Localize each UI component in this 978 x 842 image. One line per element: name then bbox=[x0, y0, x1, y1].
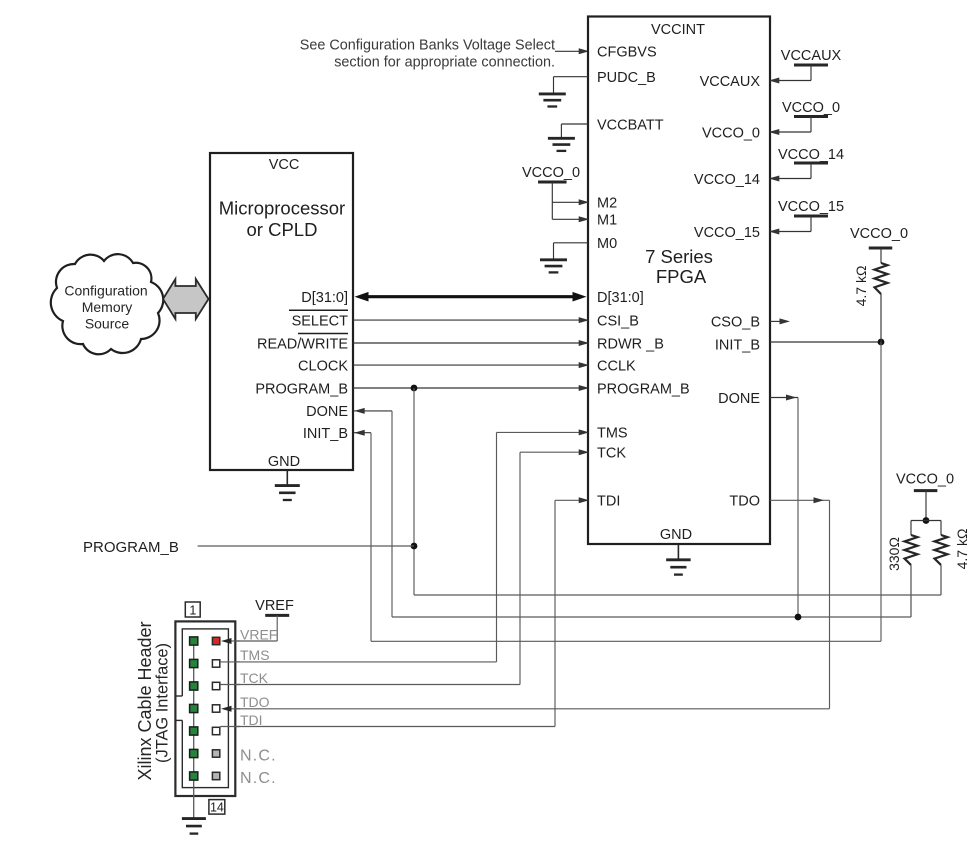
power VCCO_0 (U2 right) bbox=[769, 100, 840, 135]
label 7 Series FPGA bbox=[645, 246, 713, 287]
svg-text:VCCINT: VCCINT bbox=[651, 22, 705, 38]
pin label PROGRAM_B (U2) bbox=[597, 381, 690, 397]
FPGA U2 box bbox=[588, 17, 770, 545]
wire DONE (U2 side) bbox=[770, 395, 798, 618]
power VCCO_15 (U2 right) bbox=[769, 199, 844, 235]
svg-text:TCK: TCK bbox=[597, 446, 626, 462]
wire pull-up tee bbox=[911, 521, 941, 536]
svg-text:INIT_B: INIT_B bbox=[303, 426, 348, 442]
wire header pin column bbox=[193, 641, 195, 819]
note: configuration banks voltage select bbox=[300, 38, 555, 71]
svg-text:Memory: Memory bbox=[82, 299, 133, 315]
pin label TCK (header) bbox=[240, 670, 269, 686]
wire 330 Ohm bottom bbox=[910, 565, 912, 617]
svg-text:M2: M2 bbox=[597, 196, 617, 212]
pin label INIT_B (U1) bbox=[303, 426, 348, 442]
svg-text:Xilinx Cable Header: Xilinx Cable Header bbox=[135, 621, 155, 780]
svg-text:TMS: TMS bbox=[597, 426, 628, 442]
header pin square right VREF bbox=[212, 637, 219, 644]
pin label VCCO_0 (U2 right) bbox=[702, 125, 760, 141]
svg-text:INIT_B: INIT_B bbox=[715, 337, 760, 353]
wire INIT_B vertical bbox=[880, 342, 882, 641]
svg-text:TDO: TDO bbox=[240, 694, 270, 710]
junction PROGRAM_B at U1-U2 wire bbox=[411, 385, 418, 392]
svg-text:CSO_B: CSO_B bbox=[711, 315, 760, 331]
wire PROGRAM_B (U1 to U2) bbox=[353, 385, 589, 391]
label Microprocessor or CPLD bbox=[219, 198, 345, 240]
pin label TDI (U2) bbox=[597, 494, 620, 510]
svg-text:TDI: TDI bbox=[597, 494, 620, 510]
header pin square right N.C. bbox=[212, 772, 219, 779]
svg-text:(JTAG Interface): (JTAG Interface) bbox=[154, 643, 172, 763]
svg-text:Configuration: Configuration bbox=[64, 283, 147, 299]
header pin square left row 6 bbox=[190, 749, 198, 757]
wire 4.7k bottom bbox=[940, 565, 942, 595]
svg-text:GND: GND bbox=[660, 527, 692, 543]
svg-text:PROGRAM_B: PROGRAM_B bbox=[597, 381, 690, 397]
pin label CSI_B (U2) bbox=[597, 313, 639, 329]
svg-text:7 Series: 7 Series bbox=[645, 246, 713, 267]
svg-text:FPGA: FPGA bbox=[656, 266, 707, 287]
svg-text:SELECT: SELECT bbox=[292, 313, 349, 329]
pin label N.C. 2 (header) bbox=[240, 770, 277, 787]
value label 330 Ohm bbox=[886, 537, 902, 571]
pin label D[31:0] (U2) bbox=[597, 290, 644, 306]
label Xilinx Cable Header bbox=[135, 621, 172, 780]
svg-text:CFGBVS: CFGBVS bbox=[597, 45, 657, 61]
power VCCO_0 (mode pins) bbox=[522, 165, 580, 182]
pin label M0 (U2) bbox=[597, 236, 617, 252]
ground (U1 GND) bbox=[275, 470, 300, 500]
wire PROGRAM_B label bbox=[198, 545, 414, 547]
svg-text:VCCO_0: VCCO_0 bbox=[782, 100, 840, 116]
svg-text:M1: M1 bbox=[597, 213, 617, 229]
svg-text:1: 1 bbox=[189, 603, 196, 617]
header pin square left row 3 bbox=[190, 682, 198, 690]
wire SELECT to CSI_B bbox=[353, 317, 589, 323]
cloud: Configuration Memory Source bbox=[51, 254, 163, 354]
wire PROGRAM_B vertical bbox=[413, 388, 415, 595]
svg-text:CLOCK: CLOCK bbox=[298, 358, 348, 374]
header pin square right TDO bbox=[212, 705, 219, 712]
svg-text:TDI: TDI bbox=[240, 712, 263, 728]
pin label SELECT with overline (U1) bbox=[289, 310, 348, 329]
pin label TDI (header) bbox=[240, 712, 263, 728]
wire CSO_B stub bbox=[770, 318, 790, 324]
pin label VCC (U1) bbox=[269, 157, 300, 173]
svg-text:See Configuration Banks Voltag: See Configuration Banks Voltage Select bbox=[300, 38, 555, 54]
ground (header) bbox=[182, 819, 206, 834]
power VCCO_0 (DONE/PROGRAM pull-ups) bbox=[896, 472, 954, 521]
header pin square right N.C. bbox=[212, 750, 219, 757]
wire DONE bottom run bbox=[392, 566, 911, 617]
label pin 1 box bbox=[185, 602, 200, 617]
svg-text:or CPLD: or CPLD bbox=[247, 219, 318, 240]
pin label TMS (U2) bbox=[597, 426, 628, 442]
pin label READ/WRITE with overline (U1) bbox=[257, 334, 348, 353]
svg-text:VCCO_0: VCCO_0 bbox=[702, 125, 760, 141]
power VCCAUX (U2 right) bbox=[769, 48, 842, 84]
svg-text:VCCAUX: VCCAUX bbox=[700, 74, 761, 90]
svg-text:section for appropriate connec: section for appropriate connection. bbox=[334, 55, 555, 71]
svg-text:PUDC_B: PUDC_B bbox=[597, 70, 656, 86]
svg-text:TMS: TMS bbox=[240, 647, 270, 663]
svg-text:330Ω: 330Ω bbox=[886, 537, 902, 571]
wire TDO stub with arrow bbox=[221, 706, 240, 712]
wire M0 to ground bbox=[554, 243, 589, 260]
wire DONE (U1 side) bbox=[354, 408, 392, 617]
resistor 4.7 kOhm (PROGRAM_B pull-up) bbox=[935, 535, 948, 565]
svg-text:DONE: DONE bbox=[306, 404, 348, 420]
svg-text:VREF: VREF bbox=[240, 626, 277, 642]
bus D[31:0] (bidirectional) bbox=[355, 292, 587, 302]
pin label RDWR _B (U2) bbox=[597, 336, 664, 352]
pin label M1 (U2) bbox=[597, 213, 617, 229]
label PROGRAM_B (external) bbox=[83, 539, 179, 556]
pin label PROGRAM_B (U1) bbox=[255, 381, 348, 397]
pin label DONE (U2 right) bbox=[718, 391, 760, 407]
pin label PUDC_B (U2) bbox=[597, 70, 656, 86]
svg-text:CSI_B: CSI_B bbox=[597, 313, 639, 329]
header pin square right TDI bbox=[212, 727, 219, 734]
pin label TMS (header) bbox=[240, 647, 270, 663]
header pin square left row 7 bbox=[190, 772, 198, 780]
svg-text:D[31:0]: D[31:0] bbox=[301, 290, 348, 306]
pin label VCCINT (U2) bbox=[651, 22, 705, 38]
wire TMS stub bbox=[220, 661, 240, 663]
header pin square left row 2 bbox=[190, 659, 198, 667]
svg-text:4.7 kΩ: 4.7 kΩ bbox=[954, 529, 970, 570]
header pin square right TMS bbox=[212, 660, 219, 667]
wire TDI bbox=[220, 497, 589, 726]
svg-text:Source: Source bbox=[85, 315, 130, 331]
wire INIT_B (U1 side) bbox=[354, 430, 371, 642]
JTAG header outer box bbox=[175, 621, 235, 796]
pin label VCCAUX (U2 right) bbox=[700, 74, 761, 90]
header pin square left row 1 bbox=[190, 637, 198, 645]
wire CLOCK to CCLK bbox=[353, 362, 589, 368]
pin label CSO_B (U2 right) bbox=[711, 315, 760, 331]
wire PUDC_B to ground bbox=[554, 77, 589, 94]
svg-text:TDO: TDO bbox=[729, 494, 760, 510]
pin label GND (U2) bbox=[660, 527, 692, 543]
pin label M2 (U2) bbox=[597, 196, 617, 212]
junction DONE net bbox=[795, 614, 802, 621]
pin label VCCO_14 (U2 right) bbox=[694, 172, 760, 188]
bidirectional arrow (cloud to microprocessor) bbox=[163, 279, 209, 319]
svg-text:PROGRAM_B: PROGRAM_B bbox=[83, 539, 179, 556]
ground (VCCBATT) bbox=[548, 138, 575, 151]
svg-text:N.C.: N.C. bbox=[240, 748, 277, 765]
junction VCCO_0 pull-up tee bbox=[923, 517, 930, 524]
svg-text:14: 14 bbox=[210, 801, 224, 815]
svg-text:VCCO_14: VCCO_14 bbox=[778, 147, 844, 163]
pin label D[31:0] (U1) bbox=[301, 290, 348, 306]
wire TCK stub bbox=[220, 684, 240, 686]
ground (PUDC_B) bbox=[539, 94, 566, 107]
pin label CCLK (U2) bbox=[597, 358, 636, 374]
pin label N.C. 1 (header) bbox=[240, 748, 277, 765]
value label 4.7 kOhm (PROGRAM_B) bbox=[954, 529, 970, 570]
svg-text:M0: M0 bbox=[597, 236, 617, 252]
pin label INIT_B (U2 right) bbox=[715, 337, 760, 353]
svg-text:N.C.: N.C. bbox=[240, 770, 277, 787]
wire VCCO_0 to M2/M1 bbox=[552, 182, 587, 219]
svg-text:VCCO_14: VCCO_14 bbox=[694, 172, 760, 188]
svg-text:RDWR _B: RDWR _B bbox=[597, 336, 664, 352]
svg-text:PROGRAM_B: PROGRAM_B bbox=[255, 381, 348, 397]
svg-text:VCCO_15: VCCO_15 bbox=[778, 199, 844, 215]
wire INIT_B (U2 side) bbox=[770, 341, 881, 343]
pin label CFGBVS (U2) bbox=[597, 45, 657, 61]
svg-text:VREF: VREF bbox=[255, 598, 294, 614]
pin label CLOCK (U1) bbox=[298, 358, 348, 374]
power VREF (header) bbox=[255, 598, 294, 641]
pin label TCK (U2) bbox=[597, 446, 626, 462]
arrow into M2 bbox=[579, 199, 590, 205]
wire PROGRAM_B bottom run bbox=[414, 566, 941, 595]
pin label TDO (header) bbox=[240, 694, 270, 710]
power VCCO_14 (U2 right) bbox=[769, 147, 844, 182]
svg-text:VCCO_15: VCCO_15 bbox=[694, 225, 760, 241]
header pin square left row 4 bbox=[190, 704, 198, 712]
wire VREF stub with arrow bbox=[221, 638, 240, 644]
pin label DONE (U1) bbox=[306, 404, 348, 420]
svg-text:VCCO_0: VCCO_0 bbox=[850, 226, 908, 242]
wire VCCBATT to ground bbox=[561, 124, 588, 138]
junction PROGRAM_B label tap bbox=[411, 543, 418, 550]
arrow into M1 bbox=[579, 216, 590, 222]
ground (M0) bbox=[540, 260, 567, 273]
wire VREF into header bbox=[222, 638, 278, 644]
svg-text:GND: GND bbox=[268, 454, 300, 470]
JTAG header inner box bbox=[175, 629, 228, 788]
svg-text:READ/WRITE: READ/WRITE bbox=[257, 336, 348, 352]
svg-text:D[31:0]: D[31:0] bbox=[597, 290, 644, 306]
svg-text:VCCO_0: VCCO_0 bbox=[522, 165, 580, 181]
value label 4.7 kOhm (INIT_B) bbox=[853, 266, 869, 307]
microprocessor U1 box bbox=[210, 153, 353, 470]
svg-text:VCCO_0: VCCO_0 bbox=[896, 472, 954, 488]
wire READ/WRITE to RDWR_B bbox=[353, 340, 589, 346]
header pin square right TCK bbox=[212, 682, 219, 689]
power VCCO_0 (INIT_B pull-up) bbox=[850, 226, 908, 263]
svg-text:4.7 kΩ: 4.7 kΩ bbox=[853, 266, 869, 307]
label pin 14 box bbox=[209, 800, 225, 815]
pin label GND (U1) bbox=[268, 454, 300, 470]
wire INIT_B bottom run bbox=[371, 640, 881, 642]
wire TDO bbox=[222, 497, 830, 712]
wire TCK bbox=[220, 449, 589, 684]
pin label VCCO_15 (U2 right) bbox=[694, 225, 760, 241]
pin label VREF (header) bbox=[240, 626, 277, 642]
svg-text:DONE: DONE bbox=[718, 391, 760, 407]
pin label VCCBATT (U2) bbox=[597, 117, 664, 133]
svg-text:VCCBATT: VCCBATT bbox=[597, 117, 664, 133]
pin label TDO (U2 right) bbox=[729, 494, 760, 510]
svg-text:CCLK: CCLK bbox=[597, 358, 636, 374]
svg-text:VCCAUX: VCCAUX bbox=[781, 48, 842, 64]
header pin square left row 5 bbox=[190, 727, 198, 735]
wire CFGBVS bbox=[555, 48, 589, 54]
svg-text:TCK: TCK bbox=[240, 670, 269, 686]
resistor 4.7 kOhm (INIT_B pull-up) bbox=[875, 263, 888, 342]
wire TMS bbox=[220, 429, 589, 662]
wire TDI stub bbox=[220, 726, 240, 728]
junction INIT_B pull-up bbox=[878, 339, 885, 346]
svg-text:VCC: VCC bbox=[269, 157, 300, 173]
ground (U2 GND) bbox=[666, 544, 691, 575]
svg-text:Microprocessor: Microprocessor bbox=[219, 198, 345, 219]
resistor 330 Ohm (DONE pull-up) bbox=[905, 535, 918, 565]
